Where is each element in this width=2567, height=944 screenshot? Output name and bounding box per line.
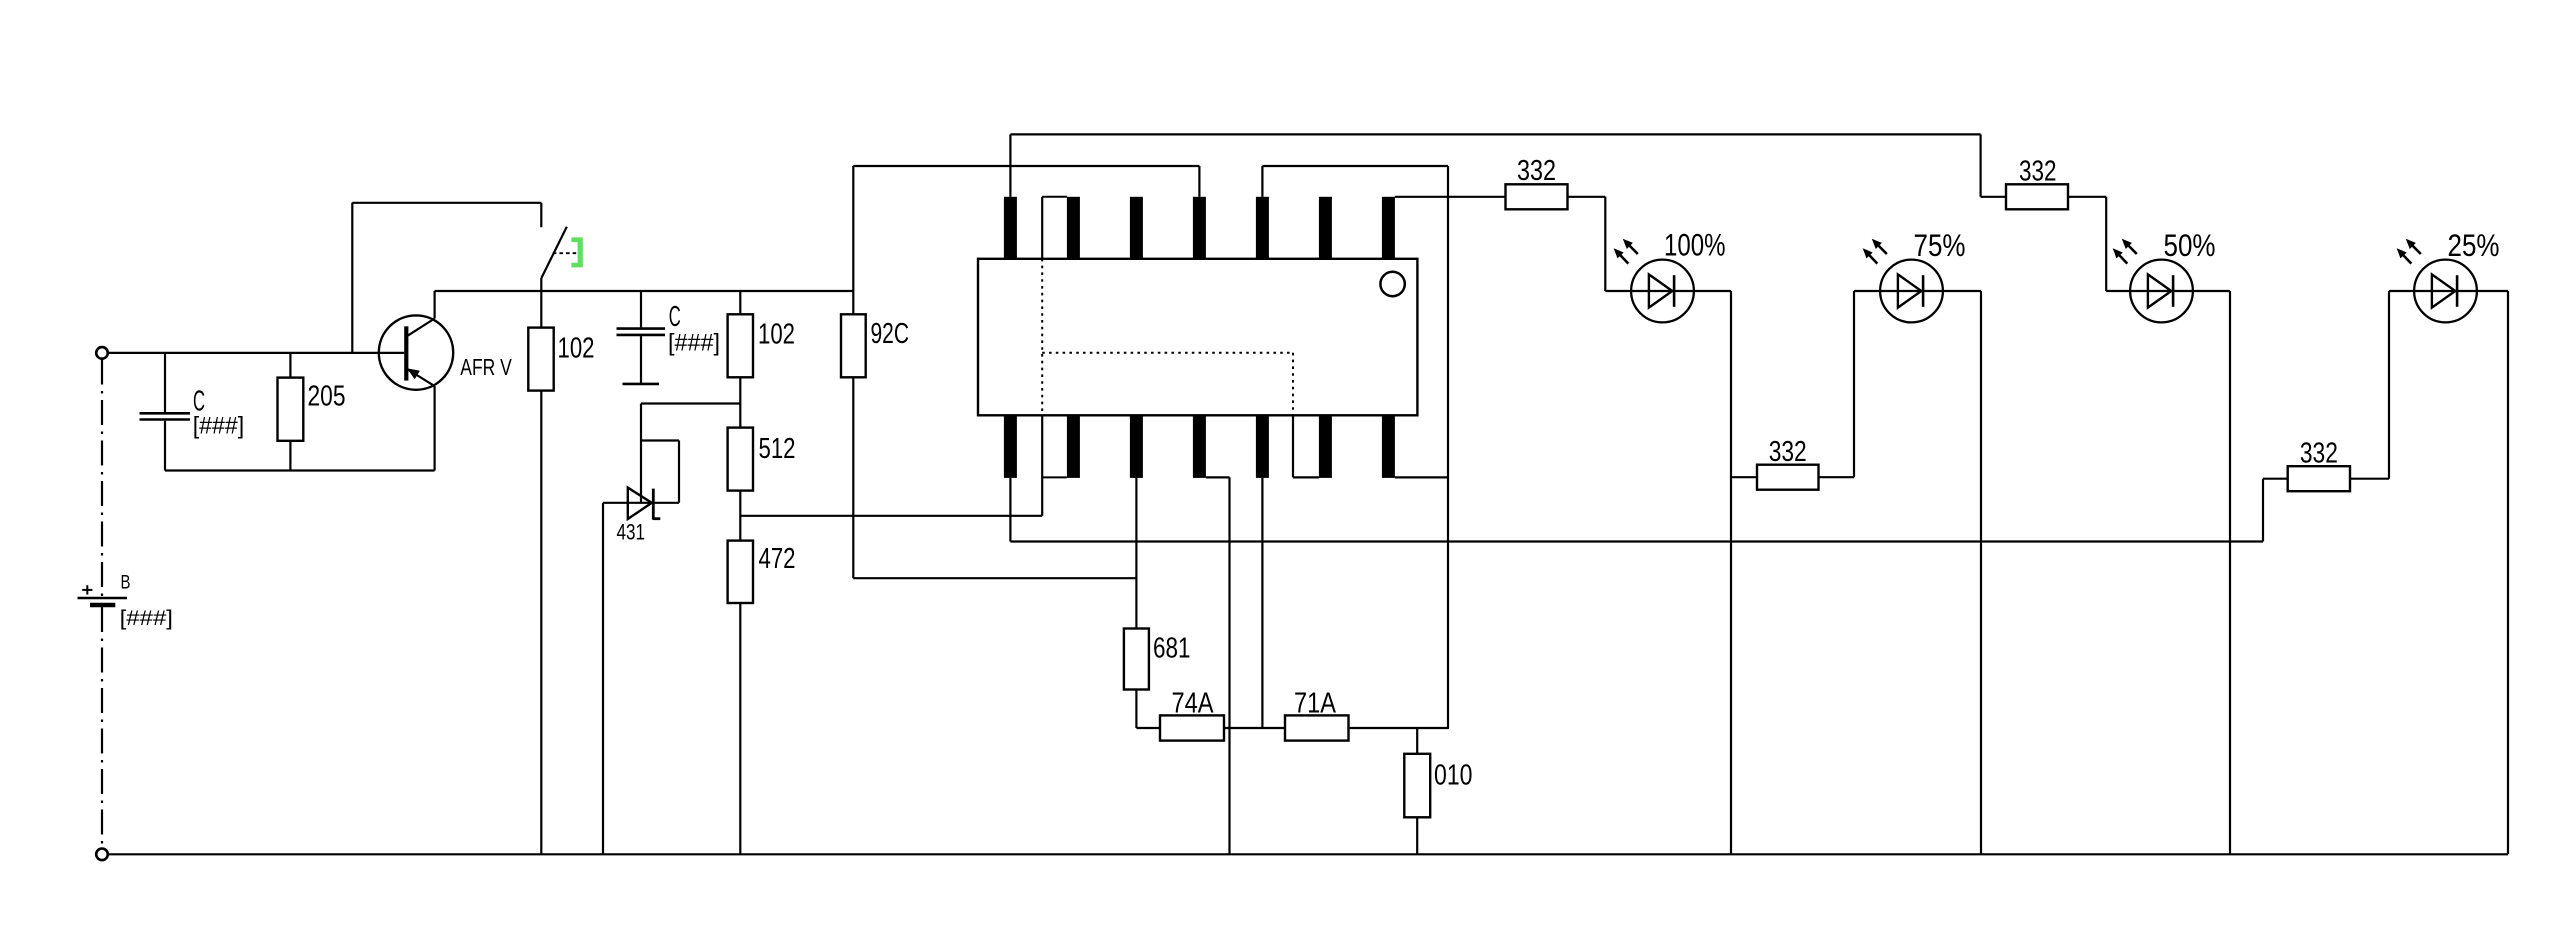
svg-text:AFR V: AFR V [460, 354, 512, 380]
svg-text:431: 431 [617, 520, 646, 545]
svg-text:[###]: [###] [120, 607, 173, 630]
svg-text:205: 205 [308, 381, 346, 413]
svg-text:71A: 71A [1294, 688, 1337, 720]
svg-text:010: 010 [1434, 760, 1473, 792]
svg-text:B: B [121, 573, 131, 594]
svg-text:332: 332 [2019, 156, 2057, 188]
svg-text:512: 512 [759, 433, 796, 465]
svg-text:681: 681 [1153, 633, 1191, 665]
svg-text:332: 332 [1517, 155, 1556, 187]
svg-text:[###]: [###] [668, 330, 720, 357]
svg-text:102: 102 [558, 333, 595, 365]
svg-text:C: C [669, 301, 681, 333]
svg-text:75%: 75% [1914, 227, 1966, 263]
svg-text:50%: 50% [2164, 227, 2216, 263]
svg-text:25%: 25% [2448, 227, 2500, 263]
svg-text:[###]: [###] [193, 413, 245, 440]
svg-text:332: 332 [2300, 438, 2338, 470]
svg-text:332: 332 [1769, 436, 1807, 468]
svg-text:74A: 74A [1172, 688, 1215, 720]
svg-text:92C: 92C [871, 318, 910, 350]
svg-text:472: 472 [759, 543, 796, 575]
svg-text:102: 102 [758, 319, 795, 351]
svg-text:100%: 100% [1664, 227, 1726, 263]
